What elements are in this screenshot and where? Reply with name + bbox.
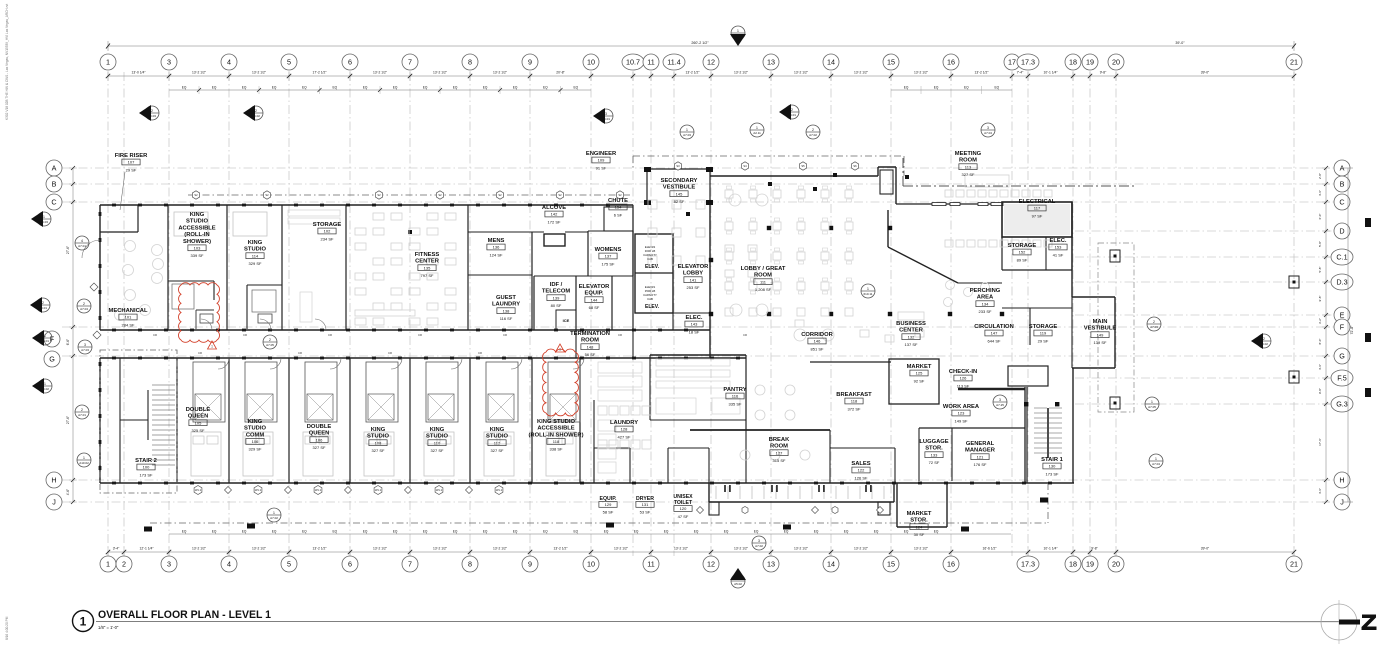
svg-text:2: 2 [255, 109, 257, 113]
svg-text:118: 118 [851, 399, 858, 404]
svg-text:5'-8": 5'-8" [1318, 241, 1322, 247]
svg-text:173 SF: 173 SF [140, 472, 153, 477]
wall: upper wing left exterior [99, 205, 101, 330]
svg-text:129: 129 [605, 502, 612, 507]
section marker 2/A5.01 [785, 105, 799, 119]
svg-text:3: 3 [999, 398, 1001, 402]
svg-text:6'-0": 6'-0" [1318, 214, 1322, 220]
callout 1/A7.03 [680, 125, 694, 139]
svg-text:CR: CR [298, 351, 302, 355]
svg-text:123: 123 [958, 411, 965, 416]
svg-text:ELEV.: ELEV. [645, 264, 660, 270]
svg-text:LAUNDRY: LAUNDRY [610, 420, 638, 426]
overall right dimension 72-8 [1347, 168, 1349, 502]
svg-text:3: 3 [84, 343, 86, 347]
svg-text:FITNESS: FITNESS [415, 252, 440, 258]
svg-text:EQ: EQ [453, 86, 458, 90]
svg-text:S2: S2 [618, 193, 622, 197]
svg-text:12'-1 1/4": 12'-1 1/4" [140, 547, 155, 551]
svg-text:329 SF: 329 SF [249, 447, 262, 452]
svg-text:TERMINATION: TERMINATION [570, 331, 610, 337]
svg-text:147: 147 [991, 331, 998, 336]
svg-text:132: 132 [908, 334, 915, 339]
svg-text:EQ: EQ [543, 530, 548, 534]
svg-text:13'-2 1/2": 13'-2 1/2" [433, 71, 448, 75]
svg-text:5'-8": 5'-8" [1318, 267, 1322, 273]
svg-text:10: 10 [587, 58, 595, 67]
svg-text:S2: S2 [498, 193, 502, 197]
wall: lower wing north (corridor south) [100, 357, 746, 359]
svg-text:92 SF: 92 SF [914, 378, 925, 383]
right marker 2/A5.02 [1257, 334, 1271, 348]
svg-text:7'-4": 7'-4" [1017, 71, 1024, 75]
svg-text:MAIN: MAIN [1093, 319, 1108, 325]
svg-text:39'-0": 39'-0" [1201, 71, 1210, 75]
svg-text:260'-2 1/2": 260'-2 1/2" [691, 41, 709, 45]
svg-text:126: 126 [960, 376, 967, 381]
svg-text:27'-6": 27'-6" [66, 246, 70, 254]
svg-text:173 SF: 173 SF [1046, 471, 1059, 476]
svg-text:17'-2 1/2": 17'-2 1/2" [313, 71, 328, 75]
svg-text:(ROLL-IN: (ROLL-IN [184, 232, 209, 238]
svg-text:EQ: EQ [423, 86, 428, 90]
wall: perching area diagonal [888, 247, 958, 283]
svg-text:EQ: EQ [302, 86, 307, 90]
svg-text:1: 1 [43, 215, 45, 219]
svg-text:VESTIBULE: VESTIBULE [1084, 326, 1117, 332]
svg-text:1: 1 [106, 58, 110, 67]
svg-text:8: 8 [468, 560, 472, 569]
grid: horizontal row centerlines [62, 167, 1336, 169]
small diamond tags left edge [90, 283, 98, 291]
room: idf/telecom [533, 276, 535, 330]
svg-text:138: 138 [503, 308, 510, 313]
svg-text:105: 105 [195, 420, 202, 425]
svg-text:EQ: EQ [212, 530, 217, 534]
svg-text:9: 9 [528, 560, 532, 569]
svg-text:325 SF: 325 SF [192, 428, 205, 433]
dimension line: overall 260ft top [108, 45, 1294, 47]
svg-text:EQ: EQ [994, 86, 999, 90]
svg-text:13'-2 1/2": 13'-2 1/2" [192, 71, 207, 75]
svg-text:QUEEN: QUEEN [188, 414, 209, 420]
wall: mens east / alcove [531, 232, 533, 330]
svg-text:11: 11 [647, 560, 654, 569]
svg-text:175 SF: 175 SF [602, 261, 615, 266]
svg-text:7: 7 [408, 560, 412, 569]
svg-text:CR: CR [618, 333, 622, 337]
svg-text:A7.04: A7.04 [984, 131, 992, 135]
svg-text:9'-8": 9'-8" [1091, 547, 1098, 551]
svg-text:ELEV.: ELEV. [645, 304, 660, 310]
furniture: lobby extra seating [725, 245, 734, 252]
svg-text:EQ: EQ [332, 86, 337, 90]
svg-text:80 SF: 80 SF [551, 303, 562, 308]
svg-text:CR: CR [503, 333, 507, 337]
svg-text:4: 4 [227, 560, 231, 569]
svg-text:12: 12 [707, 560, 715, 569]
svg-text:SALES: SALES [851, 461, 870, 467]
svg-text:1: 1 [686, 128, 688, 132]
svg-text:13'-2 1/2": 13'-2 1/2" [373, 71, 388, 75]
tag row under toilet block [697, 507, 704, 514]
callout 2/A7.05 mid [263, 335, 277, 349]
svg-text:13'-2 1/2": 13'-2 1/2" [614, 547, 629, 551]
svg-text:EQ: EQ [754, 530, 759, 534]
svg-text:MARKET: MARKET [907, 364, 932, 370]
svg-text:EQ: EQ [212, 86, 217, 90]
svg-text:112: 112 [494, 440, 501, 445]
columns at stair 1 [1024, 402, 1028, 406]
furniture: breakfast tables [755, 385, 765, 395]
elevation marker 3/A6.01 [599, 109, 613, 123]
svg-text:17.3: 17.3 [1021, 58, 1035, 67]
svg-text:797 SF: 797 SF [421, 273, 434, 278]
svg-text:7: 7 [408, 58, 412, 67]
section marker 1/A5.01 top center [731, 26, 745, 40]
svg-text:18: 18 [1069, 560, 1077, 569]
callout 3/A7.02 bottom [752, 536, 766, 550]
svg-text:6: 6 [348, 560, 352, 569]
svg-text:3'-4": 3'-4" [113, 547, 120, 551]
svg-text:A5.02: A5.02 [734, 582, 742, 586]
svg-text:DRYER: DRYER [636, 496, 654, 502]
svg-text:KING: KING [190, 212, 205, 218]
svg-text:19: 19 [1086, 58, 1094, 67]
svg-text:H: H [1339, 476, 1344, 485]
svg-text:4'-6": 4'-6" [1318, 190, 1322, 196]
svg-text:DOUBLE: DOUBLE [307, 424, 332, 430]
furniture: mechanical room tables [152, 245, 163, 256]
svg-text:EQ: EQ [242, 530, 247, 534]
svg-text:109: 109 [598, 158, 605, 163]
svg-text:ROOM: ROOM [754, 273, 772, 279]
svg-text:A7.01: A7.01 [78, 244, 86, 248]
svg-text:LUGGAGE: LUGGAGE [919, 439, 948, 445]
svg-text:4'-6": 4'-6" [1318, 364, 1322, 370]
left callout 2/A7.01 [75, 405, 89, 419]
room: fire riser [100, 231, 138, 233]
svg-text:8'-0": 8'-0" [1318, 339, 1322, 345]
svg-text:1: 1 [756, 126, 758, 130]
upper wing door arcs to corridor [201, 319, 212, 330]
svg-text:114: 114 [252, 253, 259, 258]
svg-text:B: B [52, 180, 57, 189]
svg-text:68 SF: 68 SF [589, 305, 600, 310]
svg-text:13'-2 1/2": 13'-2 1/2" [794, 547, 809, 551]
svg-text:18: 18 [1069, 58, 1077, 67]
furniture: kitchen equipment [598, 362, 642, 373]
column piers along exterior walls [112, 204, 116, 207]
svg-text:108: 108 [375, 440, 382, 445]
svg-text:233 SF: 233 SF [979, 309, 992, 314]
kitchen/laundry block walls [593, 400, 595, 483]
svg-text:10'-1 1/4": 10'-1 1/4" [1044, 547, 1059, 551]
svg-text:G: G [1339, 352, 1345, 361]
svg-text:1: 1 [737, 29, 739, 33]
svg-text:A: A [52, 164, 57, 173]
svg-text:5: 5 [287, 58, 291, 67]
svg-text:EQ: EQ [604, 530, 609, 534]
svg-text:IDF /: IDF / [550, 282, 563, 288]
svg-text:141: 141 [690, 277, 697, 282]
elevator shaft block [635, 234, 673, 313]
svg-text:13'-2 1/2": 13'-2 1/2" [313, 547, 328, 551]
svg-text:A7.02: A7.02 [755, 544, 763, 548]
dimension string row (top) [108, 75, 1294, 77]
wall: circulation/storage area [1002, 307, 1072, 309]
svg-text:20'-8": 20'-8" [556, 71, 565, 75]
alcove fountain fixture [544, 234, 565, 246]
wall: alcove south [468, 231, 544, 233]
svg-text:1: 1 [44, 334, 46, 338]
svg-text:329 SF: 329 SF [249, 261, 262, 266]
svg-text:PERCHING: PERCHING [970, 288, 1001, 294]
svg-text:119: 119 [1040, 331, 1047, 336]
svg-text:ENGINEER: ENGINEER [586, 151, 617, 157]
svg-text:111: 111 [760, 279, 767, 284]
svg-text:EQ: EQ [272, 86, 277, 90]
svg-text:KING STUDIO: KING STUDIO [537, 419, 575, 425]
furniture: storage shelves [288, 210, 340, 216]
wall: elevator core west [632, 205, 634, 330]
svg-text:145: 145 [676, 191, 683, 196]
svg-text:172 SF: 172 SF [548, 219, 561, 224]
svg-text:1: 1 [273, 511, 275, 515]
svg-text:120: 120 [680, 506, 687, 511]
svg-text:149: 149 [1097, 332, 1104, 337]
wall tag squares [686, 212, 690, 216]
svg-text:91 SF: 91 SF [596, 165, 607, 170]
svg-text:EQ: EQ [814, 530, 819, 534]
svg-text:ROOM: ROOM [770, 444, 788, 450]
svg-text:FIRE RISER: FIRE RISER [115, 153, 148, 159]
upper guest room beds [174, 212, 208, 236]
wall: upper wing exterior top [100, 204, 633, 206]
svg-text:13'-2 1/2": 13'-2 1/2" [975, 71, 990, 75]
svg-text:1: 1 [106, 560, 110, 569]
wall: king studio accessible / king studio [226, 205, 228, 330]
svg-text:LOBBY: LOBBY [683, 271, 703, 277]
svg-text:13'-2 1/2": 13'-2 1/2" [794, 71, 809, 75]
svg-text:17: 17 [1008, 58, 1016, 67]
svg-text:124: 124 [916, 524, 923, 529]
svg-text:CR: CR [328, 333, 332, 337]
svg-text:142: 142 [551, 212, 558, 217]
svg-text:56 SF: 56 SF [585, 352, 596, 357]
furniture: fitness equipment [373, 213, 384, 220]
room: break room / service band [690, 429, 830, 431]
svg-text:LOBBY / GREAT: LOBBY / GREAT [741, 266, 786, 272]
svg-text:1: 1 [559, 348, 561, 352]
svg-text:143: 143 [691, 322, 698, 327]
furniture: dining row 3 [725, 308, 733, 316]
svg-text:1/8" = 1'-0": 1/8" = 1'-0" [98, 625, 119, 630]
svg-text:BREAKFAST: BREAKFAST [836, 392, 872, 398]
svg-text:EQ: EQ [182, 86, 187, 90]
revision cloud 2 (lower king studio accessible) [543, 349, 579, 416]
svg-text:CR: CR [418, 333, 422, 337]
svg-text:EQ: EQ [694, 530, 699, 534]
room: ice nook [556, 310, 576, 330]
svg-text:113 SF: 113 SF [957, 383, 970, 388]
title: drawing number circle [73, 611, 94, 632]
svg-text:WOMENS: WOMENS [595, 247, 622, 253]
svg-text:13'-2 1/2": 13'-2 1/2" [734, 71, 749, 75]
svg-text:EQ: EQ [573, 86, 578, 90]
svg-text:STUDIO: STUDIO [367, 434, 389, 440]
callout 1/A7.02 bottom [267, 508, 281, 522]
svg-text:10'-1 1/4": 10'-1 1/4" [1044, 71, 1059, 75]
svg-text:107: 107 [128, 160, 135, 165]
svg-text:EQ: EQ [934, 86, 939, 90]
svg-text:72'-8": 72'-8" [1350, 325, 1354, 334]
wall: king studio / storage [281, 205, 283, 330]
toilet block south extension [708, 483, 710, 502]
svg-text:1,208 SF: 1,208 SF [755, 287, 772, 292]
svg-text:13'-2 1/2": 13'-2 1/2" [686, 71, 701, 75]
svg-text:EQ: EQ [664, 530, 669, 534]
furniture: lobby seating [729, 194, 741, 206]
svg-text:E: E [1340, 311, 1345, 320]
svg-text:W1.1: W1.1 [195, 488, 202, 492]
svg-text:EQ: EQ [393, 86, 398, 90]
svg-text:CR: CR [388, 351, 392, 355]
svg-text:6 SF: 6 SF [614, 212, 623, 217]
furniture: great room dining tables [648, 200, 657, 209]
svg-text:VESTIBULE: VESTIBULE [663, 185, 696, 191]
elevation marker 2/A6.03 [145, 106, 159, 120]
svg-text:CENTER: CENTER [899, 328, 924, 334]
svg-text:253 SF: 253 SF [687, 285, 700, 290]
svg-text:327 SF: 327 SF [491, 448, 504, 453]
svg-text:3: 3 [987, 126, 989, 130]
svg-text:16: 16 [947, 58, 955, 67]
wall: corridor north wall [100, 329, 710, 331]
svg-text:EQ: EQ [302, 530, 307, 534]
svg-text:327 SF: 327 SF [431, 448, 444, 453]
svg-text:EQ: EQ [453, 530, 458, 534]
wall type tags row below lower wing [194, 486, 202, 495]
svg-text:PANTRY: PANTRY [723, 387, 746, 393]
svg-text:MECHANICAL: MECHANICAL [109, 308, 148, 314]
svg-text:100: 100 [143, 465, 150, 470]
room: elevator equip [576, 275, 612, 277]
svg-text:KING: KING [490, 427, 505, 433]
svg-text:13: 13 [767, 560, 775, 569]
svg-text:EQ: EQ [272, 530, 277, 534]
svg-text:D.3: D.3 [1336, 278, 1347, 287]
svg-text:W1.1: W1.1 [315, 488, 322, 492]
svg-text:MENS: MENS [488, 238, 505, 244]
entry door arc west wall [82, 240, 100, 258]
svg-text:G: G [49, 355, 55, 364]
svg-text:EQUIP.: EQUIP. [600, 496, 617, 502]
svg-text:89 SF: 89 SF [1017, 257, 1028, 262]
svg-text:144: 144 [591, 297, 598, 302]
svg-text:137 SF: 137 SF [905, 342, 918, 347]
small black squares below plan [144, 527, 152, 532]
rooms: equip / dryer / unisex toilet (above south wall) [593, 448, 595, 483]
svg-text:125: 125 [916, 371, 923, 376]
svg-text:1: 1 [44, 382, 46, 386]
svg-text:CR: CR [478, 351, 482, 355]
svg-text:117: 117 [1034, 206, 1041, 211]
guest room dividers lower wing [228, 358, 230, 483]
svg-text:17'-6": 17'-6" [1318, 438, 1322, 446]
svg-text:2: 2 [812, 128, 814, 132]
title underline [96, 621, 1339, 623]
svg-text:A7.02: A7.02 [809, 133, 817, 137]
furniture: perching area [946, 281, 955, 290]
svg-text:EQ: EQ [363, 86, 368, 90]
entry jog northeast of great room [878, 166, 896, 168]
wall: mechanical/king studio accessible [167, 205, 169, 330]
svg-text:122: 122 [858, 468, 865, 473]
svg-text:EQ: EQ [363, 530, 368, 534]
rooms: storage 152 / elec 153 [1001, 237, 1003, 270]
check-in counter [958, 388, 1025, 391]
svg-text:137: 137 [605, 254, 612, 259]
svg-text:EQ: EQ [874, 530, 879, 534]
svg-text:CR: CR [198, 351, 202, 355]
vertical dimension line right [1325, 168, 1327, 502]
svg-text:C: C [51, 198, 56, 207]
svg-text:4'-6": 4'-6" [1318, 488, 1322, 494]
svg-text:F.5: F.5 [1337, 374, 1347, 383]
svg-text:ELECTRICAL: ELECTRICAL [1019, 199, 1056, 205]
svg-text:A7.05: A7.05 [1148, 405, 1156, 409]
svg-text:154: 154 [615, 205, 622, 210]
revision delta tag 1 [208, 341, 217, 349]
svg-text:47 SF: 47 SF [678, 514, 689, 519]
svg-text:GENERAL: GENERAL [966, 441, 995, 447]
callout 2/A7.03 right [1147, 317, 1161, 331]
callout 3/A7.05 [993, 395, 1007, 409]
svg-text:DOUBLE: DOUBLE [186, 407, 211, 413]
svg-text:CIRCULATION: CIRCULATION [974, 324, 1014, 330]
svg-text:S5: S5 [801, 164, 805, 168]
svg-text:130: 130 [1049, 464, 1056, 469]
svg-text:851 SF: 851 SF [811, 346, 824, 351]
svg-text:6: 6 [348, 58, 352, 67]
svg-text:COMM: COMM [246, 432, 265, 438]
svg-text:EQ: EQ [934, 530, 939, 534]
svg-text:SHOWER): SHOWER) [183, 239, 211, 245]
svg-text:S2: S2 [558, 193, 562, 197]
svg-text:G.3: G.3 [1336, 400, 1348, 409]
svg-text:644 SF: 644 SF [988, 338, 1001, 343]
svg-text:5: 5 [287, 560, 291, 569]
svg-text:A7.02: A7.02 [270, 516, 278, 520]
svg-text:AREA: AREA [977, 295, 994, 301]
svg-text:8: 8 [468, 58, 472, 67]
svg-text:17.3: 17.3 [1021, 560, 1035, 569]
north arrow [1321, 604, 1357, 640]
svg-text:STOR.: STOR. [910, 518, 928, 524]
svg-text:13: 13 [767, 58, 775, 67]
svg-text:C: C [1339, 198, 1344, 207]
svg-text:ALCOVE: ALCOVE [542, 205, 566, 211]
lower wing guest room interiors [193, 362, 225, 422]
svg-text:13'-2 1/2": 13'-2 1/2" [252, 547, 267, 551]
svg-text:4'-6": 4'-6" [66, 489, 70, 495]
svg-text:335 SF: 335 SF [729, 401, 742, 406]
room: elec 143 [673, 312, 710, 314]
svg-text:ROOM: ROOM [959, 158, 977, 164]
furniture: business center table [898, 312, 924, 320]
svg-text:39'-0": 39'-0" [1175, 41, 1185, 45]
